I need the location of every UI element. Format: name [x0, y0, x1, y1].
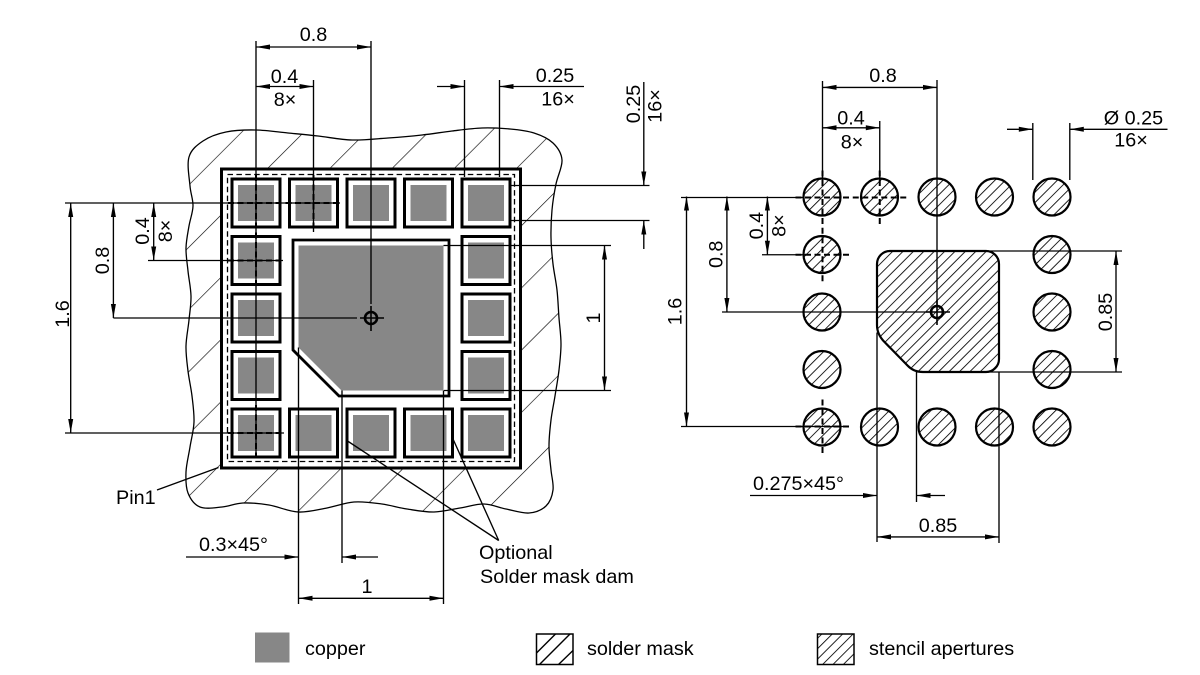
pad opening col5 row5: [462, 409, 510, 457]
centerline row2 horizontal: [148, 260, 283, 262]
dimension 0.85 bottom right-fig: [877, 536, 999, 538]
svg-text:8×: 8×: [155, 220, 177, 243]
svg-text:8×: 8×: [841, 132, 864, 154]
svg-text:stencil apertures: stencil apertures: [869, 638, 1014, 660]
dimension 0.25 16x right (vertical): [643, 82, 645, 186]
pad opening col4 row1: [405, 179, 453, 227]
pad opening col1 row1: [232, 179, 280, 227]
dimension 0.4 8x left right-fig: [766, 197, 768, 255]
pad opening col4 row5: [405, 409, 453, 457]
center target crosshair: [365, 312, 377, 324]
dimension 0.275x45 chamfer right-fig: [750, 495, 877, 497]
stencil circle col5 row4: [1034, 351, 1071, 388]
stencil circle col5 row1: [1034, 179, 1071, 216]
pad opening col5 row1: [462, 179, 510, 227]
legend solder mask hatch lines: [537, 634, 556, 653]
Pin1 label and leader: [157, 468, 219, 491]
dimension 0.4 8x top right-fig: [823, 127, 880, 129]
svg-text:solder mask: solder mask: [587, 638, 694, 660]
pad copper col5 row2: [468, 243, 504, 279]
svg-text:16×: 16×: [541, 89, 575, 111]
pad copper col3 row5: [353, 415, 389, 451]
legend stencil swatch: [818, 634, 855, 665]
extension lines pad5 top: [464, 80, 466, 177]
dimension dia 0.25 16x right-fig: [1007, 128, 1033, 130]
dashed crosshatch pad (2,1): [228, 260, 284, 262]
stencil circle col4 row1: [976, 179, 1013, 216]
pad opening col5 row2: [462, 237, 510, 285]
stencil circle col1 row3: [804, 294, 841, 331]
dimension 0.8 top: [256, 46, 371, 48]
dimension 0.8 left right-fig: [726, 197, 728, 313]
thermal pad copper (chamfered): [299, 246, 444, 391]
svg-text:0.4: 0.4: [746, 212, 768, 240]
svg-text:Solder mask dam: Solder mask dam: [480, 566, 634, 588]
svg-text:16×: 16×: [645, 89, 667, 123]
pad opening col5 row4: [462, 352, 510, 400]
svg-text:copper: copper: [305, 638, 366, 660]
pad copper col3 row1: [353, 185, 389, 221]
solder mask hatched region (wavy outline): [186, 128, 562, 513]
centerline col2 vertical right fig: [879, 121, 881, 180]
pad copper col4 row5: [411, 415, 447, 451]
package outline (dashed): [228, 175, 515, 462]
centerline col1 vertical right fig: [822, 81, 824, 180]
Optional solder mask dam label and leaders: [346, 440, 499, 541]
centerline row5 right fig: [681, 426, 804, 428]
stencil circle col5 row2: [1034, 236, 1071, 273]
svg-text:1: 1: [583, 312, 605, 323]
svg-text:0.275×45°: 0.275×45°: [753, 473, 844, 495]
dimension 0.8 top right-fig: [823, 86, 938, 88]
stencil circle col1 row4: [804, 351, 841, 388]
svg-text:Ø 0.25: Ø 0.25: [1104, 108, 1163, 130]
pad copper col1 row5: [238, 415, 274, 451]
svg-text:0.8: 0.8: [92, 247, 114, 275]
dashed crosshatch pad (1,2): [286, 202, 342, 204]
svg-text:0.25: 0.25: [623, 85, 645, 124]
pad copper col1 row3: [238, 300, 274, 336]
dashed crosshatch pad (1,1): [228, 202, 284, 204]
svg-text:0.4: 0.4: [132, 217, 154, 245]
stencil circle col3 row5: [919, 409, 956, 446]
pad copper col1 row1: [238, 185, 274, 221]
svg-text:0.85: 0.85: [919, 515, 958, 537]
pad copper col1 row2: [238, 243, 274, 279]
centerline center horizontal: [113, 317, 357, 319]
centerline row5 horizontal: [65, 432, 284, 434]
dimension 0.8 left: [112, 203, 114, 318]
dimension 0.4 8x left: [153, 203, 155, 261]
dimension 1 right (thermal height): [604, 246, 606, 391]
dimension 0.4 8x top: [256, 86, 314, 88]
pad opening col1 row5: [232, 409, 280, 457]
stencil circle col1 row5: [804, 409, 841, 446]
dimension 0.3x45 chamfer: [186, 556, 299, 558]
svg-text:0.4: 0.4: [837, 108, 865, 130]
svg-text:16×: 16×: [1114, 130, 1148, 152]
dimension 1.6 left right-fig: [686, 197, 688, 427]
pad copper col2 row1: [296, 185, 332, 221]
dimension 0.25 16x top-right: [437, 86, 465, 88]
center paste aperture (rounded, chamfered): [877, 251, 999, 372]
pad opening col3 row1: [347, 179, 395, 227]
stencil circle col5 row5: [1034, 409, 1071, 446]
dimension 0.85 right right-fig: [1115, 251, 1117, 372]
dashed crosshatch circle (822,426): [796, 426, 850, 428]
pad copper col5 row5: [468, 415, 504, 451]
centerline row1 horizontal: [65, 202, 340, 204]
stencil circle col1 row2: [804, 236, 841, 273]
centerline center horizontal right fig: [722, 311, 930, 313]
centerline col2 vertical: [313, 80, 315, 232]
pad copper col5 row3: [468, 300, 504, 336]
pad copper col4 row1: [411, 185, 447, 221]
svg-text:1.6: 1.6: [52, 300, 74, 328]
stencil circle col4 row5: [976, 409, 1013, 446]
extension lines pad row1 copper right: [511, 185, 650, 187]
pad opening col1 row2: [232, 237, 280, 285]
pad copper col5 row4: [468, 358, 504, 394]
svg-text:1: 1: [361, 576, 372, 598]
svg-text:Pin1: Pin1: [116, 487, 156, 509]
stencil circle col2 row5: [861, 409, 898, 446]
crosshair right fig: [931, 306, 943, 318]
svg-text:8×: 8×: [769, 214, 791, 237]
centerline col1 vertical: [255, 41, 257, 458]
dimension 1.6 left: [70, 203, 72, 433]
stencil circle col1 row1: [804, 179, 841, 216]
svg-text:0.3×45°: 0.3×45°: [199, 534, 268, 556]
centerline row1 right fig: [681, 197, 804, 199]
dashed crosshatch Pin1 pad (5,1): [228, 432, 284, 434]
pad opening col1 row3: [232, 294, 280, 342]
svg-text:0.4: 0.4: [271, 66, 299, 88]
svg-text:0.8: 0.8: [869, 65, 897, 87]
pad copper col2 row5: [296, 415, 332, 451]
pad opening col3 row5: [347, 409, 395, 457]
legend solder mask swatch: [537, 634, 574, 665]
centerline center vertical right fig: [936, 80, 938, 306]
svg-text:0.8: 0.8: [706, 241, 728, 268]
stencil circle col3 row1: [919, 179, 956, 216]
svg-text:0.25: 0.25: [536, 65, 575, 87]
pad copper col1 row4: [238, 358, 274, 394]
dimension 1 bottom (thermal width): [299, 597, 444, 599]
svg-text:Optional: Optional: [479, 542, 553, 564]
pad opening col5 row3: [462, 294, 510, 342]
solder mask opening outer boundary square: [222, 169, 521, 468]
svg-text:0.8: 0.8: [300, 24, 328, 46]
centerline row2 right fig: [762, 254, 807, 256]
stencil circle col5 row3: [1034, 294, 1071, 331]
legend copper swatch: [255, 633, 290, 663]
stencil circle col2 row1: [861, 179, 898, 216]
dashed crosshatch circle (822,255): [796, 254, 850, 256]
pad copper col5 row1: [468, 185, 504, 221]
thermal pad solder-mask opening outline: [293, 240, 449, 396]
centerline center vertical: [370, 41, 372, 304]
pad opening col1 row4: [232, 352, 280, 400]
pad opening col2 row1: [290, 179, 338, 227]
svg-text:1.6: 1.6: [665, 298, 687, 326]
svg-text:0.85: 0.85: [1095, 293, 1117, 332]
svg-text:8×: 8×: [274, 89, 297, 111]
pad opening col2 row5: [290, 409, 338, 457]
dashed crosshatch circle (822,198): [796, 197, 850, 199]
dashed crosshatch circle (880,198): [853, 197, 907, 199]
